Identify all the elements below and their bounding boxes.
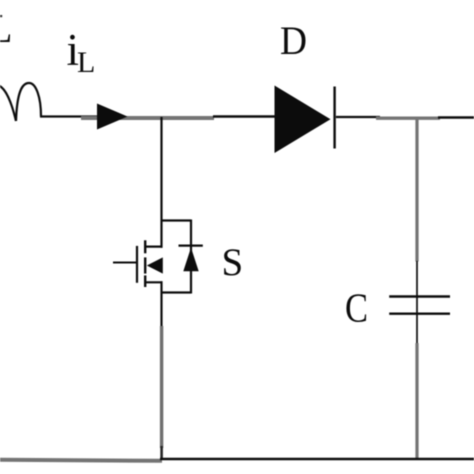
label S <box>222 241 244 284</box>
capacitor C plates <box>389 297 450 314</box>
svg-text:L: L <box>77 46 95 79</box>
label L <box>0 6 12 51</box>
wire: output branch vertical gray (top) <box>415 118 418 262</box>
wire: inductor to arrow (black) <box>40 115 100 117</box>
wire: gray underlay segment on top rail <box>81 116 214 120</box>
MOSFET gate bar <box>136 246 138 283</box>
wire: bottom rail black (right) <box>160 458 474 461</box>
wire: diode cathode to junction (black then gray) <box>336 117 474 118</box>
wire: thin black through capacitor <box>416 261 418 344</box>
MOSFET drain branch <box>144 246 163 248</box>
label D <box>280 18 307 63</box>
wire: bottom rail gray (left) <box>0 460 162 461</box>
label i_L <box>67 25 96 79</box>
MOSFET package bottom bar <box>161 291 192 293</box>
MOSFET channel segments <box>144 240 146 287</box>
MOSFET gate lead <box>113 262 137 264</box>
svg-text:D: D <box>280 18 307 63</box>
label C <box>345 285 368 331</box>
svg-text:L: L <box>0 6 12 51</box>
wire: MOSFET source vertical (black then gray) <box>160 281 162 459</box>
MOSFET body diode <box>179 246 203 272</box>
wire: arrow to diode anode (black) <box>213 115 276 118</box>
wire: output branch vertical gray (bottom) <box>415 343 418 459</box>
MOSFET source branch <box>144 281 163 283</box>
MOSFET body-diode branch vertical <box>190 220 192 294</box>
wire: MOSFET drain vertical from top rail <box>160 117 162 248</box>
svg-text:S: S <box>222 241 244 284</box>
MOSFET substrate arrow <box>147 257 163 273</box>
inductor L <box>0 83 41 121</box>
svg-text:C: C <box>345 285 368 331</box>
arrow for i_L <box>97 104 128 130</box>
diode D <box>275 86 335 154</box>
MOSFET package top bar <box>161 219 192 221</box>
